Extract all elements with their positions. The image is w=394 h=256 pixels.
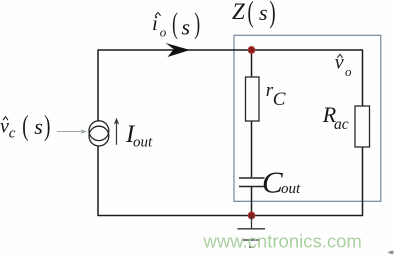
wire: bottom horizontal rail: [98, 215, 364, 217]
svg-text:i: i: [152, 11, 158, 35]
svg-text:C: C: [262, 164, 283, 199]
current source Iout: upper circle: [89, 121, 109, 141]
svg-text:o: o: [160, 24, 167, 39]
svg-text:v: v: [335, 52, 344, 74]
wire: left vertical lower segment: [97, 146, 99, 216]
svg-text:www.cntronics.com: www.cntronics.com: [203, 231, 362, 252]
node junction dot top: [248, 46, 255, 53]
arrowhead of io(s) on top wire: [166, 43, 191, 57]
svg-text:ac: ac: [334, 116, 349, 133]
svg-text:s: s: [34, 114, 43, 139]
current direction arrow (up) beside source: [116, 122, 118, 145]
label io(s): hat: [155, 12, 160, 15]
current source Iout: lower circle: [89, 126, 109, 146]
wire: middle branch node to rC: [251, 50, 253, 77]
resistor rC body: [246, 77, 260, 121]
svg-text:o: o: [345, 64, 352, 79]
wire: top horizontal rail: [98, 49, 364, 51]
svg-text:Z: Z: [232, 0, 245, 24]
resistor Rac body: [355, 106, 370, 147]
svg-text:out: out: [281, 181, 301, 197]
svg-text:): ): [44, 110, 50, 142]
svg-text:(: (: [172, 7, 178, 40]
svg-text:c: c: [9, 125, 16, 141]
svg-text:C: C: [273, 89, 286, 110]
vc(s) input arrow (gray): [57, 131, 82, 133]
wire: middle branch below Cout: [251, 187, 253, 216]
capacitor Cout top plate: [239, 177, 265, 179]
svg-text:(: (: [248, 0, 254, 29]
ground symbol: [238, 216, 266, 248]
wire: right branch Rac to bottom: [362, 147, 364, 216]
svg-text:s: s: [259, 0, 268, 25]
wire: right branch top to Rac: [362, 50, 364, 106]
node junction dot bottom: [248, 212, 255, 219]
wire: left vertical upper segment: [97, 50, 99, 122]
svg-text:): ): [194, 7, 200, 40]
svg-text:(: (: [22, 110, 28, 142]
label vo: hat: [338, 54, 343, 58]
impedance block Z(s) box: [234, 35, 381, 201]
label vc(s): hat: [3, 117, 8, 121]
svg-text:): ): [269, 0, 275, 29]
cursor arrow bottom-right: [390, 251, 394, 253]
wire: middle branch rC to Cout: [251, 121, 253, 177]
svg-text:out: out: [133, 135, 153, 151]
capacitor Cout bottom plate: [239, 186, 265, 188]
svg-text:s: s: [182, 15, 191, 40]
svg-text:v: v: [0, 115, 9, 137]
